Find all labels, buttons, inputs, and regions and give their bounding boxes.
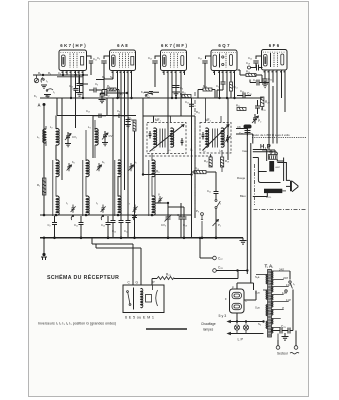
svg-text:R₂₂: R₂₂ [236,104,240,108]
IF transformer MF1 [147,116,193,154]
svg-text:C₂: C₂ [48,223,51,227]
resistor R5 [37,178,46,195]
svg-text:Inverseurs I₁ I₂ I₃ I₄ I₅: Inverseurs I₁ I₂ I₃ I₄ I₅ position G (gr… [38,322,116,326]
capacitor bank C16 C17 C18 [111,131,138,238]
capacitor C14 with ground [125,116,136,128]
svg-text:C₃₀: C₃₀ [247,92,253,96]
junction dots on rail [70,97,72,99]
TA primary winding S2a [255,290,267,299]
excitation coil black bar [269,161,280,172]
svg-text:L₅: L₅ [168,148,171,152]
svg-text:b₅: b₅ [102,160,105,164]
svg-text:R₃: R₃ [46,94,49,98]
resistor R22 [236,104,246,111]
oscillator label K3 S1 [102,75,113,79]
svg-text:C₁₈: C₁₈ [216,84,220,88]
pin ticks under tubes [62,71,284,73]
capacitor C5 [101,90,129,101]
wire rounded corners into HP [236,129,253,135]
svg-text:I₁: I₁ [53,90,55,94]
capacitor CK black [237,125,252,130]
shield dash-dot line [194,92,196,213]
tube U5 pin wires [265,70,285,98]
wires down to power section [247,218,253,283]
svg-text:C₁₅: C₁₅ [185,100,189,104]
voice coil black bar [264,189,282,199]
resistor R19 [221,150,230,172]
capacitor C5b [93,114,106,119]
wire [75,75,77,89]
coil L3 [88,120,98,158]
capacitor C23 [250,78,269,86]
resistor R23 [152,271,238,286]
terminal C27 [199,237,223,261]
plate cap right of tube U1 [87,56,97,75]
TA secondary windings right [272,271,273,279]
wire loop into TS [253,152,278,155]
TA tap wires [272,271,290,328]
svg-text:CV₁: CV₁ [72,135,77,139]
svg-text:C₂₁: C₂₁ [207,189,211,193]
wire loop exc bottom out [258,172,280,183]
svg-text:P: P [153,281,155,285]
resistor R4 [102,84,119,98]
potentiometer P3 [34,75,38,83]
grid cap C19a tube U5 [248,56,262,68]
TA primary winding S3a [255,305,267,316]
coil L2a [56,160,59,177]
capacitor C3 [89,82,102,93]
wire stub U1 grid cap [79,83,88,85]
capacitor C19b [179,203,188,238]
tube U1 pin wires [63,71,83,99]
wire bottom feeds [92,238,141,285]
tube U3 pin wires [164,71,185,155]
antenna coil stack column x56 [53,160,76,220]
wire right side of TS down [283,158,285,182]
svg-text:I₆: I₆ [219,201,221,205]
svg-text:S₁a: S₁a [255,275,260,279]
filament wiring lines [228,320,265,334]
resistor R18 [192,167,217,174]
main ground bus [40,237,243,239]
coil L1 [37,126,46,146]
svg-text:L₂: L₂ [50,125,53,129]
svg-text:lampes: lampes [203,328,214,332]
resistor R6 [129,116,137,131]
svg-text:R₁: R₁ [38,71,41,75]
svg-text:R₁₇: R₁₇ [204,159,208,163]
svg-text:6 K 7 ( H F ): 6 K 7 ( H F ) [60,43,86,48]
svg-text:K₁: K₁ [34,94,37,98]
svg-text:6 Q 7: 6 Q 7 [218,43,230,48]
speaker note dotted line [252,133,306,138]
mains terminals [276,331,298,350]
IF transformer MF2 [200,98,231,153]
svg-text:L₇: L₇ [219,149,222,153]
wire [61,98,63,180]
svg-text:R₁₁: R₁₁ [196,110,200,114]
svg-text:C₁₅: C₁₅ [101,223,105,227]
svg-text:6 F 6: 6 F 6 [269,43,280,48]
switch I2 [41,78,48,89]
rectifier 5Y3 [219,283,257,322]
svg-text:C₉: C₉ [117,109,120,113]
svg-text:haut: haut [243,149,249,153]
svg-text:A: A [38,103,41,108]
caption underline [146,328,187,330]
resistor R14 under U4 [230,80,239,98]
svg-text:R₂₀: R₂₀ [265,100,271,104]
trimmer T1 [67,163,72,171]
svg-text:I₂: I₂ [46,79,48,83]
svg-text:C₅: C₅ [103,97,106,101]
variable capacitor CV2 [102,131,113,146]
svg-text:6 E 5 ou E M 1: 6 E 5 ou E M 1 [125,316,154,320]
svg-text:C₆: C₆ [147,95,150,99]
resistor R16v [196,209,203,238]
svg-text:Chauffage: Chauffage [201,322,216,326]
capacitor C21 [207,172,219,200]
capacitor C20 [168,207,187,238]
svg-text:K₃: K₃ [141,90,144,94]
resistor R13 [198,84,215,98]
resistor R16 [238,70,263,83]
wire bottom loop to voice coil [253,193,267,197]
coil L2b [56,196,59,215]
potentiometer P1 [213,209,221,239]
svg-text:R₁₆: R₁₆ [246,70,250,74]
node on AVC rail [42,74,44,76]
variable capacitor CV1 [65,132,77,147]
svg-text:110ʹ: 110ʹ [286,298,291,302]
capacitor C19 [246,61,263,71]
oscillator coil stack column x152 [149,154,163,216]
svg-text:5 y 3: 5 y 3 [219,314,227,318]
tube U1 6K7(HF) envelope [59,50,87,71]
wire under U2 [96,79,113,90]
svg-text:C₂₂: C₂₂ [240,89,244,93]
trimmer T7 [158,196,163,203]
TA primary winding S1a [255,275,267,284]
svg-text:C₁₁: C₁₁ [74,223,78,227]
capacitor C30 [237,92,253,99]
wire rail doubling [57,76,83,78]
svg-text:CV₂: CV₂ [109,134,114,138]
trimmer T3 [97,163,102,171]
svg-text:C₂₇: C₂₇ [218,257,223,261]
rail y116 mid [143,115,195,117]
switch I1 with ground [44,89,55,98]
svg-text:R₁₈: R₁₈ [195,167,199,171]
svg-text:Rouge: Rouge [237,176,246,180]
tube U5 6F6 envelope [262,50,288,71]
rail y115.5 left [57,115,136,117]
svg-text:Secteur: Secteur [277,352,289,356]
capacitor C15b [185,100,194,106]
tube U2 pin wires [113,71,132,219]
capacitor C24 [262,76,273,88]
svg-text:L₁: L₁ [37,135,40,139]
resistor R21 [182,91,191,98]
tube U4 pin wires [215,71,235,99]
capacitor C15 [101,216,111,238]
svg-text:L₆: L₆ [203,149,206,153]
capacitor C13 [69,84,79,90]
oscillator switch S1 [141,90,153,96]
capacitor C2 [48,216,58,238]
svg-text:C₂₈: C₂₈ [218,266,224,270]
transformer TA core [268,270,272,338]
RF coil stack column x86 [83,130,106,220]
tube U4 6Q7 envelope [211,50,237,71]
oscillator coil stack column x118 [115,160,138,220]
mid ground bus [40,214,192,216]
resistor R17 [204,154,212,167]
svg-text:résist. de 1 800 Ω sous 4 volt: résist. de 1 800 Ω sous 4 volts [252,133,290,137]
svg-text:C₁₇: C₁₇ [124,229,128,233]
capacitor C8 with ground [172,82,183,96]
earth ground left [41,239,47,260]
svg-text:C₈: C₈ [180,86,183,90]
TA bottom wires [256,322,264,334]
svg-text:R₅: R₅ [37,183,40,187]
svg-text:6 A 8: 6 A 8 [117,43,128,48]
svg-text:L₆: L₆ [190,148,193,152]
svg-text:I₇: I₇ [293,282,295,286]
transformer T.S. [269,150,278,159]
grid cap C10 tube U3 [148,56,161,87]
resistor R20 [261,97,271,110]
svg-text:Bleu: Bleu [240,194,246,198]
coil L2 [50,116,59,161]
capacitor C29 [272,325,294,341]
svg-text:C₁₆: C₁₆ [112,229,116,233]
svg-text:I₁: I₁ [66,201,68,205]
switch I6 [215,200,221,209]
svg-text:R₁₉: R₁₉ [225,159,229,163]
dial lamp 1 [234,322,239,334]
svg-text:C₂₆: C₂₆ [261,108,267,112]
svg-text:exc: exc [276,165,281,169]
mains switch I7 [285,271,295,331]
capacitor C25 [239,129,251,136]
svg-text:C₁₁: C₁₁ [93,57,97,61]
svg-text:240ʹ: 240ʹ [279,268,285,272]
svg-text:C₁₂: C₁₂ [248,56,252,60]
svg-text:T. A.: T. A. [265,264,274,269]
svg-text:MF₁: MF₁ [155,118,161,122]
svg-text:C₁₇: C₁₇ [198,56,202,60]
svg-text:SCHÉMA DU RÉCEPTEUR: SCHÉMA DU RÉCEPTEUR [47,273,119,281]
svg-text:F: F [225,297,227,301]
dial lamp 2 [243,322,248,334]
trimmer T5 [129,163,134,171]
capacitor C18 under U4 [216,80,226,98]
svg-text:MF₂: MF₂ [205,118,212,122]
grid cap C17 tube U4 [198,56,211,88]
svg-text:R₆: R₆ [129,116,132,120]
dashed shield line under MF1 [145,155,212,157]
capacitor C26 [255,100,267,114]
svg-text:C₁: C₁ [58,71,61,75]
grid cap C4 tube U2 [97,56,110,79]
svg-text:C₇: C₇ [73,87,76,91]
svg-text:R₂₁: R₂₁ [182,91,186,95]
capacitor C6 [144,92,159,99]
svg-text:220ʹ: 220ʹ [283,276,289,280]
chassis dash-dot lines [254,209,308,211]
svg-text:P₁: P₁ [218,223,221,227]
switch inside [127,291,129,293]
terminal C28 [213,266,249,275]
resistor R9 [142,170,193,176]
svg-text:P₉: P₉ [196,209,199,213]
capacitor C7 with ground [73,75,84,96]
chassis ground at bus end [240,238,247,244]
tube base 6E5 box [123,281,164,313]
wire elbow [155,202,168,204]
label secteur [277,352,299,356]
potentiometer P2 [252,114,262,124]
wire loop into exc top [253,150,267,162]
svg-text:R₂: R₂ [48,71,51,75]
long right wire [284,70,286,112]
svg-text:C₃: C₃ [95,82,98,86]
capacitor C9 [113,109,127,118]
wire loop to output transformer [247,83,277,219]
svg-text:6 K 7 ( M F ): 6 K 7 ( M F ) [161,43,187,48]
svg-text:C₁₉: C₁₉ [246,61,250,65]
TA filament winding [258,321,267,329]
variable capacitor CV3 [161,203,172,238]
wire antenna down [43,106,45,215]
tube U3 6K7(MF) envelope [161,50,187,71]
svg-text:I₃: I₃ [128,201,130,205]
tube U2 6A8 envelope [110,50,136,71]
svg-text:b.​m.: b.​m. [266,195,272,199]
svg-text:CV₃: CV₃ [161,223,166,227]
svg-text:L P: L P [238,338,244,342]
svg-text:S₁: S₁ [110,75,113,79]
rail B+ y98 [40,97,262,99]
capacitor C11 [74,216,84,238]
svg-text:R₂₃: R₂₃ [166,273,172,277]
capacitor C12 with ground [99,90,110,103]
svg-text:L₃: L₃ [88,125,91,129]
AVC rail wire [33,74,88,76]
svg-text:I₂: I₂ [96,201,98,205]
svg-text:S₃a: S₃a [255,306,260,310]
speaker cone [282,181,298,192]
svg-text:P: P [232,286,234,290]
